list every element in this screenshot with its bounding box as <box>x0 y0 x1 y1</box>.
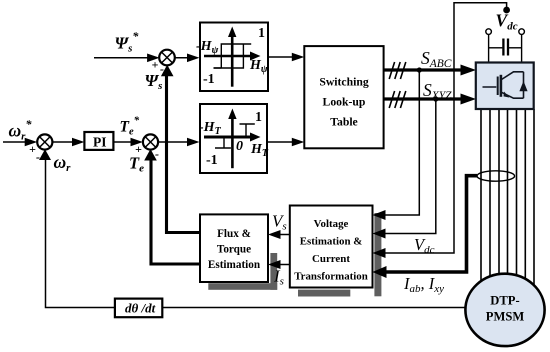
svg-text:Flux &: Flux & <box>217 228 251 240</box>
svg-text:+: + <box>152 58 159 72</box>
torque comparator horizontal axis <box>204 136 253 139</box>
svg-text:PMSM: PMSM <box>486 309 525 323</box>
svg-text:Look-up: Look-up <box>323 96 366 109</box>
summing junction J1 (flux) <box>159 50 175 66</box>
inverter block <box>476 63 534 110</box>
wire T_e feedback (thick) <box>151 154 200 264</box>
motor DTP-PMSM <box>465 274 544 346</box>
wire J2 to PI <box>52 141 78 143</box>
shadow of flux torque estimation block <box>270 253 277 290</box>
shadow of voltage estimation block (right) <box>374 213 381 296</box>
svg-text:DTP-: DTP- <box>490 294 519 308</box>
IGBT emitter path <box>502 92 524 98</box>
wire right terminal to inverter <box>521 34 523 62</box>
svg-text:+: + <box>29 142 36 156</box>
wire dtheta/dt to J2 (speed feedback) <box>46 154 115 308</box>
wire S_XYZ thick output <box>384 97 462 100</box>
wire S_ABC drop to estimator <box>381 70 419 215</box>
slash marks S_ABC <box>389 62 406 79</box>
phase line 4 <box>507 109 509 283</box>
junction dot S_XYZ <box>433 96 438 101</box>
IGBT gate lead <box>483 86 497 88</box>
IGBT diode leg <box>523 72 525 98</box>
svg-text:Torque: Torque <box>217 244 251 256</box>
summing junction J2 (speed) <box>37 134 52 149</box>
torque hysteresis comparator block <box>200 104 267 173</box>
svg-text:Table: Table <box>330 116 358 129</box>
node V_dc tap dot <box>503 7 510 14</box>
phase line 3 <box>498 109 500 283</box>
phase line 6 <box>524 109 526 288</box>
IGBT body bar <box>500 75 503 97</box>
svg-text:dθ /dt: dθ /dt <box>125 301 156 316</box>
wire J3 to torque comparator <box>158 141 192 143</box>
capacitor C dc-link <box>489 47 503 49</box>
wire torque comparator to lookup table <box>267 141 297 143</box>
dc link terminal right <box>519 29 525 35</box>
svg-text:1: 1 <box>255 110 262 125</box>
svg-text:Current: Current <box>312 253 350 265</box>
phase line 5 <box>516 109 518 285</box>
wire psi_s feedback (thick) <box>167 70 201 233</box>
wire omega_r* reference input <box>3 141 30 143</box>
svg-text:Voltage: Voltage <box>314 218 349 230</box>
wire J1 to flux comparator <box>174 57 192 59</box>
svg-text:-: - <box>36 150 40 164</box>
wire I_s to flux estimator <box>276 264 290 266</box>
torque comparator upper step <box>240 124 255 137</box>
junction dot S_ABC <box>417 67 422 72</box>
phase line 7 <box>533 109 535 295</box>
torque comparator vertical axis <box>231 113 234 168</box>
flux comparator hysteresis loop <box>214 44 252 68</box>
wire S_ABC thick output <box>384 68 462 71</box>
wire V_s to flux estimator <box>276 234 290 236</box>
IGBT emitter arrow <box>504 92 510 98</box>
wire I_ab I_xy thick from sensor <box>381 176 477 272</box>
voltage estimation block <box>290 206 373 288</box>
summing junction J3 (torque) <box>143 134 158 149</box>
svg-text:0: 0 <box>236 139 243 154</box>
flux comparator horizontal axis <box>204 55 253 58</box>
slash marks S_XYZ <box>389 91 406 108</box>
wire S_XYZ drop to estimator <box>381 99 436 234</box>
svg-text:PI: PI <box>93 135 107 150</box>
flux comparator vertical axis <box>231 31 234 87</box>
svg-text:Transformation: Transformation <box>294 271 368 283</box>
wire left terminal to inverter <box>488 34 490 62</box>
IGBT diode arrow <box>519 81 527 91</box>
wire PI to J3 <box>113 141 136 143</box>
wire flux comparator to lookup table <box>268 56 297 58</box>
flux torque estimation block <box>200 214 268 282</box>
IGBT collector path <box>502 72 524 80</box>
flux hysteresis comparator block <box>200 23 268 92</box>
PI controller block <box>84 132 113 150</box>
dc link terminal left <box>486 29 492 35</box>
wire V_dc sense from top <box>381 3 507 253</box>
phase line 1 <box>480 109 482 290</box>
switching look-up table block <box>304 46 383 148</box>
svg-text:Switching: Switching <box>319 76 369 89</box>
svg-text:1: 1 <box>258 26 265 41</box>
shadow of voltage estimation block (bottom) <box>298 290 350 297</box>
IGBT gate bar <box>497 77 499 96</box>
svg-text:Estimation &: Estimation & <box>300 236 363 248</box>
wire motor to dtheta/dt <box>162 307 467 309</box>
svg-text:Estimation: Estimation <box>208 259 261 271</box>
svg-text:-1: -1 <box>206 153 218 168</box>
d theta/dt block <box>115 299 162 318</box>
phase line 2 <box>489 109 491 285</box>
wire psi_s* reference input <box>94 57 152 59</box>
current sensor ellipse <box>477 171 515 181</box>
svg-text:-1: -1 <box>203 72 215 87</box>
torque comparator lower step <box>215 137 231 148</box>
